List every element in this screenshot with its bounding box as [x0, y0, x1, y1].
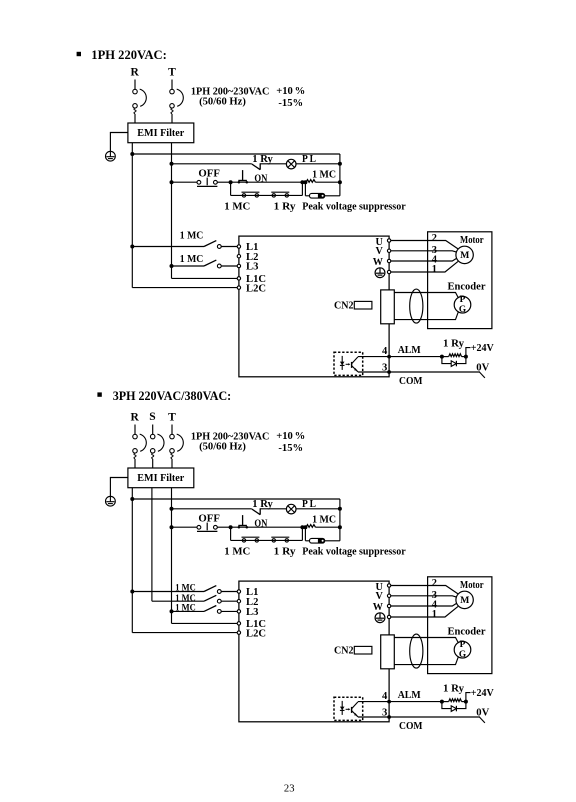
wire holding branch up-right	[301, 182, 303, 195]
svg-text:1 MC: 1 MC	[224, 547, 250, 558]
pin 3	[382, 707, 387, 718]
svg-text:1 Ry: 1 Ry	[274, 202, 297, 213]
ground symbol (motor frame)	[375, 268, 385, 278]
pushbutton ON (NO)	[238, 515, 248, 528]
junction L3 feed	[170, 264, 174, 268]
circuit breaker T	[170, 80, 184, 124]
value label supply voltage	[191, 431, 270, 452]
label 1 Ry (output relay)	[443, 683, 465, 694]
svg-text:(50/60 Hz): (50/60 Hz)	[199, 97, 246, 108]
value label tolerance +10%	[276, 431, 305, 442]
wire control top bus	[132, 153, 340, 155]
wire to OFF button	[172, 181, 198, 183]
EMI filter	[128, 468, 194, 488]
wire lamp to riser	[296, 508, 340, 510]
terminal L2C	[237, 286, 240, 289]
motor M	[456, 591, 473, 608]
flyback diode branch	[442, 357, 466, 364]
node +24V	[471, 343, 494, 354]
svg-text:EMI Filter: EMI Filter	[137, 127, 184, 139]
peak voltage suppressor	[310, 538, 325, 543]
label Peak voltage suppressor	[302, 202, 406, 213]
wire encoder cable bottom	[394, 656, 458, 664]
flyback diode branch	[442, 702, 466, 709]
pushbutton OFF (NC)	[197, 523, 217, 532]
wire W to motor	[391, 605, 428, 607]
pin 4 (motor)	[432, 254, 437, 265]
label 1 MC (coil)	[312, 514, 336, 525]
value label tolerance +10%	[276, 86, 305, 97]
svg-text:L2C: L2C	[246, 628, 266, 639]
junction coil-riser	[338, 180, 342, 184]
wire coil to riser	[316, 181, 340, 183]
encoder PG	[454, 295, 471, 315]
wire EMI filter to ground	[110, 478, 128, 497]
contactor contact 1 MC (L1)	[132, 586, 237, 594]
junction holding branch right	[300, 180, 304, 184]
label 1 MC (L3 contact)	[175, 603, 196, 613]
label L2C	[246, 283, 266, 294]
wire holding branch up-right	[301, 527, 303, 540]
svg-text:M: M	[460, 250, 469, 261]
wire motor pin 3	[428, 596, 457, 597]
label Peak voltage suppressor	[302, 547, 406, 558]
wire to +24V	[466, 693, 471, 702]
terminal W	[387, 604, 390, 607]
pilot lamp PL	[286, 159, 296, 169]
junction pin4 at drive edge	[387, 700, 391, 704]
svg-text:COM: COM	[399, 721, 423, 732]
label OFF	[198, 168, 220, 179]
junction control feed A	[130, 152, 134, 156]
contactor contact 1 MC (L3)	[172, 606, 238, 614]
svg-text:R: R	[131, 67, 140, 79]
protective earth ground	[106, 151, 116, 161]
connector CN2 plug	[354, 646, 372, 654]
svg-text:ON: ON	[254, 519, 267, 530]
wire holding branch down-left	[230, 182, 232, 195]
terminal V	[387, 594, 390, 597]
label L1C	[246, 274, 266, 285]
node R (phase input)	[131, 67, 140, 79]
contactor coil 1 MC	[306, 525, 316, 528]
node +24V	[471, 688, 494, 699]
svg-text:COM: COM	[399, 376, 423, 387]
wire pin3 (COM)	[358, 371, 480, 373]
label L3	[246, 262, 258, 273]
motor-encoder box	[428, 232, 492, 329]
wire encoder cable top	[394, 638, 458, 644]
svg-text:T: T	[168, 412, 176, 424]
relay coil 1 Ry	[442, 699, 466, 702]
label ON	[254, 174, 267, 185]
svg-text:V: V	[376, 591, 384, 602]
circuit breaker S	[150, 425, 164, 469]
label L1	[246, 242, 258, 253]
svg-text:ALM: ALM	[398, 690, 421, 701]
svg-text:W: W	[373, 257, 384, 268]
ground symbol (motor frame)	[375, 613, 385, 623]
wire phase bus right (from EMI output 2)	[171, 143, 173, 279]
label PL	[302, 154, 316, 165]
label W	[373, 257, 384, 268]
label COM	[399, 376, 423, 387]
svg-text:1PH 220VAC:: 1PH 220VAC:	[91, 48, 167, 62]
node 0V	[476, 362, 489, 378]
wire earth to motor	[391, 271, 428, 273]
relay contact 1 Ry (NO)	[252, 508, 260, 514]
wire OFF to ON	[217, 526, 230, 528]
svg-text:Peak voltage suppressor: Peak voltage suppressor	[302, 202, 406, 213]
svg-text:G: G	[459, 650, 466, 660]
wire holding branch down-left	[230, 527, 232, 540]
svg-text:+24V: +24V	[471, 688, 494, 699]
svg-text:1 MC: 1 MC	[224, 202, 250, 213]
label 1 Ry (relay coil note)	[274, 547, 297, 558]
wire L2C feed	[132, 287, 237, 289]
optocoupler (ALM output)	[334, 352, 363, 375]
encoder cable bundle	[410, 634, 423, 668]
encoder cable bundle	[410, 289, 423, 323]
label L1	[246, 587, 258, 598]
label 1 MC (holding contact)	[224, 202, 250, 213]
wire L2C feed	[132, 632, 237, 634]
node S (phase input)	[149, 411, 155, 423]
motor M	[456, 246, 473, 263]
svg-text:-15%: -15%	[278, 98, 303, 109]
auxiliary contact 1 MC a	[242, 192, 260, 197]
junction pin3 at drive edge	[387, 715, 391, 719]
wire pin4 (ALM)	[358, 701, 442, 703]
svg-text:CN2: CN2	[334, 300, 354, 311]
label 1 MC (L3 contact)	[180, 254, 204, 265]
svg-text:%: %	[295, 86, 306, 97]
svg-text:3: 3	[382, 707, 387, 718]
junction coil-riser	[338, 525, 342, 529]
svg-text:1 MC: 1 MC	[312, 169, 336, 180]
wire motor pin 4	[428, 259, 457, 262]
svg-text:1 MC: 1 MC	[312, 514, 336, 525]
label CN2	[334, 645, 354, 656]
pin 3 (motor)	[432, 590, 437, 601]
label L2	[246, 597, 258, 608]
optocoupler (ALM output)	[334, 697, 363, 720]
terminal U	[387, 584, 390, 587]
junction control feed A	[130, 497, 134, 501]
pin 2 (motor)	[432, 578, 437, 589]
junction holding branch right	[300, 525, 304, 529]
svg-text:L2C: L2C	[246, 283, 266, 294]
svg-text:EMI Filter: EMI Filter	[137, 472, 184, 484]
label OFF	[198, 513, 220, 524]
wire phase bus left (from EMI output 1)	[131, 143, 133, 288]
junction suppressor branch	[303, 525, 307, 529]
terminal U	[387, 239, 390, 242]
node R (phase input)	[131, 412, 140, 424]
label 1 MC (L1 contact)	[175, 582, 196, 592]
svg-text:G: G	[459, 305, 466, 315]
pushbutton ON (NO)	[238, 170, 248, 183]
auxiliary contact 1 MC b	[271, 537, 289, 542]
wire motor pin 1	[428, 261, 458, 272]
wire 1Ry to lamp	[260, 508, 286, 510]
junction pin3 at drive edge	[387, 370, 391, 374]
EMI filter	[128, 123, 194, 143]
wire lamp to riser	[296, 163, 340, 165]
wire holding branch bottom	[231, 194, 303, 196]
svg-text:Peak voltage suppressor: Peak voltage suppressor	[302, 547, 406, 558]
svg-text:P: P	[460, 640, 466, 650]
wire V to motor	[391, 250, 428, 252]
label 1 Ry	[252, 499, 273, 510]
junction relay coil right	[464, 355, 468, 359]
wire suppressor branch	[305, 195, 309, 197]
label Motor	[460, 235, 484, 246]
wire motor pin 4	[428, 604, 457, 607]
label L2	[246, 252, 258, 263]
wire phase bus right (from EMI output 3)	[171, 488, 173, 624]
svg-text:0V: 0V	[476, 707, 489, 718]
junction relay coil left	[440, 355, 444, 359]
svg-text:L3: L3	[246, 262, 258, 273]
junction coil line feed	[170, 180, 174, 184]
svg-text:1 MC: 1 MC	[175, 603, 196, 613]
wire to OFF button	[172, 526, 198, 528]
label 1 Ry	[252, 154, 273, 165]
label COM	[399, 721, 423, 732]
node 0V	[476, 707, 489, 723]
junction L1 feed	[130, 590, 134, 594]
label ALM	[398, 345, 421, 356]
label V	[376, 591, 384, 602]
flyback diode	[451, 706, 456, 712]
svg-text:%: %	[295, 431, 306, 442]
relay contact 1 Ry (NO)	[252, 163, 260, 169]
svg-text:1 Ry: 1 Ry	[443, 683, 465, 694]
label CN2	[334, 300, 354, 311]
terminal L1	[237, 245, 240, 248]
node T (phase input)	[168, 67, 176, 79]
wire motor pin 1	[428, 606, 458, 617]
circuit breaker R	[133, 425, 147, 469]
terminal L1C	[237, 277, 240, 280]
label 1 MC (holding contact)	[224, 547, 250, 558]
wire coil to riser	[316, 526, 340, 528]
svg-text:1 MC: 1 MC	[175, 582, 196, 592]
terminal L2	[237, 255, 240, 258]
label U	[376, 237, 384, 248]
junction relay coil right	[464, 700, 468, 704]
pin 3	[382, 362, 387, 373]
pin 4	[382, 691, 388, 702]
wire suppressor to riser	[325, 195, 340, 197]
label PL	[302, 499, 316, 510]
wire PL branch left	[172, 163, 252, 165]
svg-text:4: 4	[382, 346, 388, 357]
junction PL branch	[170, 507, 174, 511]
wire motor pin 2	[428, 241, 458, 249]
terminal L3	[237, 610, 240, 613]
wire encoder cable bottom	[394, 311, 458, 319]
svg-text:Motor: Motor	[460, 235, 484, 246]
wire under ON button	[231, 526, 303, 528]
svg-text:ALM: ALM	[398, 345, 421, 356]
motor-encoder box	[428, 577, 492, 674]
terminal motor earth	[387, 615, 390, 618]
svg-text:T: T	[168, 67, 176, 79]
auxiliary contact 1 MC b	[271, 192, 289, 197]
wire suppressor branch	[305, 540, 309, 542]
contactor contact 1 MC (L3)	[172, 260, 238, 268]
svg-text:1 MC: 1 MC	[180, 254, 204, 265]
terminal W	[387, 259, 390, 262]
junction PL-riser	[338, 162, 342, 166]
svg-text:W: W	[373, 602, 384, 613]
pin 1 (motor)	[432, 264, 437, 275]
wire motor pin 2	[428, 586, 458, 594]
circuit breaker R	[133, 80, 147, 124]
connector CN2 plug	[354, 301, 372, 309]
contactor contact 1 MC (L1)	[132, 241, 237, 249]
pin 4	[382, 346, 388, 357]
svg-text:1 MC: 1 MC	[175, 593, 196, 603]
label 1 MC (coil)	[312, 169, 336, 180]
connector (drive side)	[381, 635, 395, 669]
svg-text:Motor: Motor	[460, 580, 484, 591]
wire control top bus	[132, 498, 340, 500]
circuit breaker T	[170, 425, 184, 469]
svg-text:CN2: CN2	[334, 645, 354, 656]
terminal L2	[237, 600, 240, 603]
label ON	[254, 519, 267, 530]
pin 1 (motor)	[432, 609, 437, 620]
svg-text:Encoder: Encoder	[448, 626, 486, 637]
svg-text:1: 1	[432, 264, 437, 275]
svg-text:1 Ry: 1 Ry	[274, 547, 297, 558]
terminal motor earth	[387, 270, 390, 273]
wire earth to motor	[391, 616, 428, 618]
wire pin4 (ALM)	[358, 356, 442, 358]
value label tolerance -15%	[278, 98, 303, 109]
wire W to motor	[391, 260, 428, 262]
wire 1Ry to lamp	[260, 163, 286, 165]
label W	[373, 602, 384, 613]
svg-text:OFF: OFF	[198, 168, 220, 179]
connector (drive side)	[381, 290, 395, 324]
wire L1C feed	[172, 277, 238, 279]
wire suppressor branch down	[304, 182, 306, 196]
label 1 MC (L1 contact)	[180, 230, 204, 241]
wire U to motor	[391, 240, 428, 242]
pushbutton OFF (NC)	[197, 178, 217, 187]
pilot lamp PL	[286, 504, 296, 514]
pin 3 (motor)	[432, 245, 437, 256]
terminal L1C	[237, 622, 240, 625]
wire under ON button	[231, 181, 303, 183]
servo drive box	[239, 581, 389, 722]
junction PL branch	[170, 162, 174, 166]
label Motor	[460, 580, 484, 591]
terminal L1	[237, 590, 240, 593]
junction suppressor branch	[303, 180, 307, 184]
wire V to motor	[391, 595, 428, 597]
terminal V	[387, 249, 390, 252]
wire control right riser	[339, 154, 341, 196]
label 1 Ry (output relay)	[443, 338, 465, 349]
pin 2 (motor)	[432, 233, 437, 244]
junction holding branch left	[229, 525, 233, 529]
svg-text:P: P	[460, 295, 466, 305]
svg-text:S: S	[149, 411, 155, 423]
junction PL-riser	[338, 507, 342, 511]
wire OFF to ON	[217, 181, 230, 183]
contactor coil 1 MC	[306, 180, 316, 183]
terminal L3	[237, 264, 240, 267]
wire suppressor branch down	[304, 527, 306, 541]
svg-text:-15%: -15%	[278, 443, 303, 454]
label L2C	[246, 628, 266, 639]
wire pin3 (COM)	[358, 716, 480, 718]
label Encoder	[448, 626, 486, 637]
protective earth ground	[106, 496, 116, 506]
svg-text:(50/60 Hz): (50/60 Hz)	[199, 442, 246, 453]
svg-text:3PH 220VAC/380VAC:: 3PH 220VAC/380VAC:	[113, 389, 232, 403]
pin 4 (motor)	[432, 599, 437, 610]
junction L3 feed	[170, 609, 174, 613]
svg-text:+10: +10	[276, 86, 293, 97]
page number 23	[284, 783, 295, 794]
junction pin4 at drive edge	[387, 355, 391, 359]
label U	[376, 582, 384, 593]
svg-text:4: 4	[382, 691, 388, 702]
svg-text:1 Ry: 1 Ry	[443, 338, 465, 349]
value label supply voltage	[191, 86, 270, 107]
wire L1C feed	[172, 622, 238, 624]
contactor contact 1 MC (L2)	[152, 595, 237, 603]
svg-text:+24V: +24V	[471, 343, 494, 354]
svg-text:OFF: OFF	[198, 513, 220, 524]
title 1PH 220VAC	[77, 48, 167, 62]
wire holding branch bottom	[231, 539, 303, 541]
svg-text:3: 3	[382, 362, 387, 373]
svg-text:0V: 0V	[476, 362, 489, 373]
svg-text:23: 23	[284, 783, 295, 794]
label ALM	[398, 690, 421, 701]
wire control right riser	[339, 499, 341, 541]
peak voltage suppressor	[310, 193, 325, 198]
encoder PG	[454, 640, 471, 660]
wire motor pin 3	[428, 251, 457, 252]
svg-text:M: M	[460, 595, 469, 606]
wire encoder cable top	[394, 293, 458, 299]
flyback diode	[451, 361, 456, 367]
junction relay coil left	[440, 700, 444, 704]
junction holding branch left	[229, 180, 233, 184]
svg-text:V: V	[376, 246, 384, 257]
label Encoder	[448, 281, 486, 292]
svg-text:Encoder: Encoder	[448, 281, 486, 292]
auxiliary contact 1 MC a	[242, 537, 260, 542]
wire PL branch left	[172, 508, 252, 510]
svg-text:L3: L3	[246, 607, 258, 618]
wire to +24V	[466, 348, 471, 357]
value label tolerance -15%	[278, 443, 303, 454]
terminal L2C	[237, 631, 240, 634]
label L3	[246, 607, 258, 618]
junction coil line feed	[170, 525, 174, 529]
svg-text:1: 1	[432, 609, 437, 620]
svg-text:2: 2	[432, 233, 437, 244]
